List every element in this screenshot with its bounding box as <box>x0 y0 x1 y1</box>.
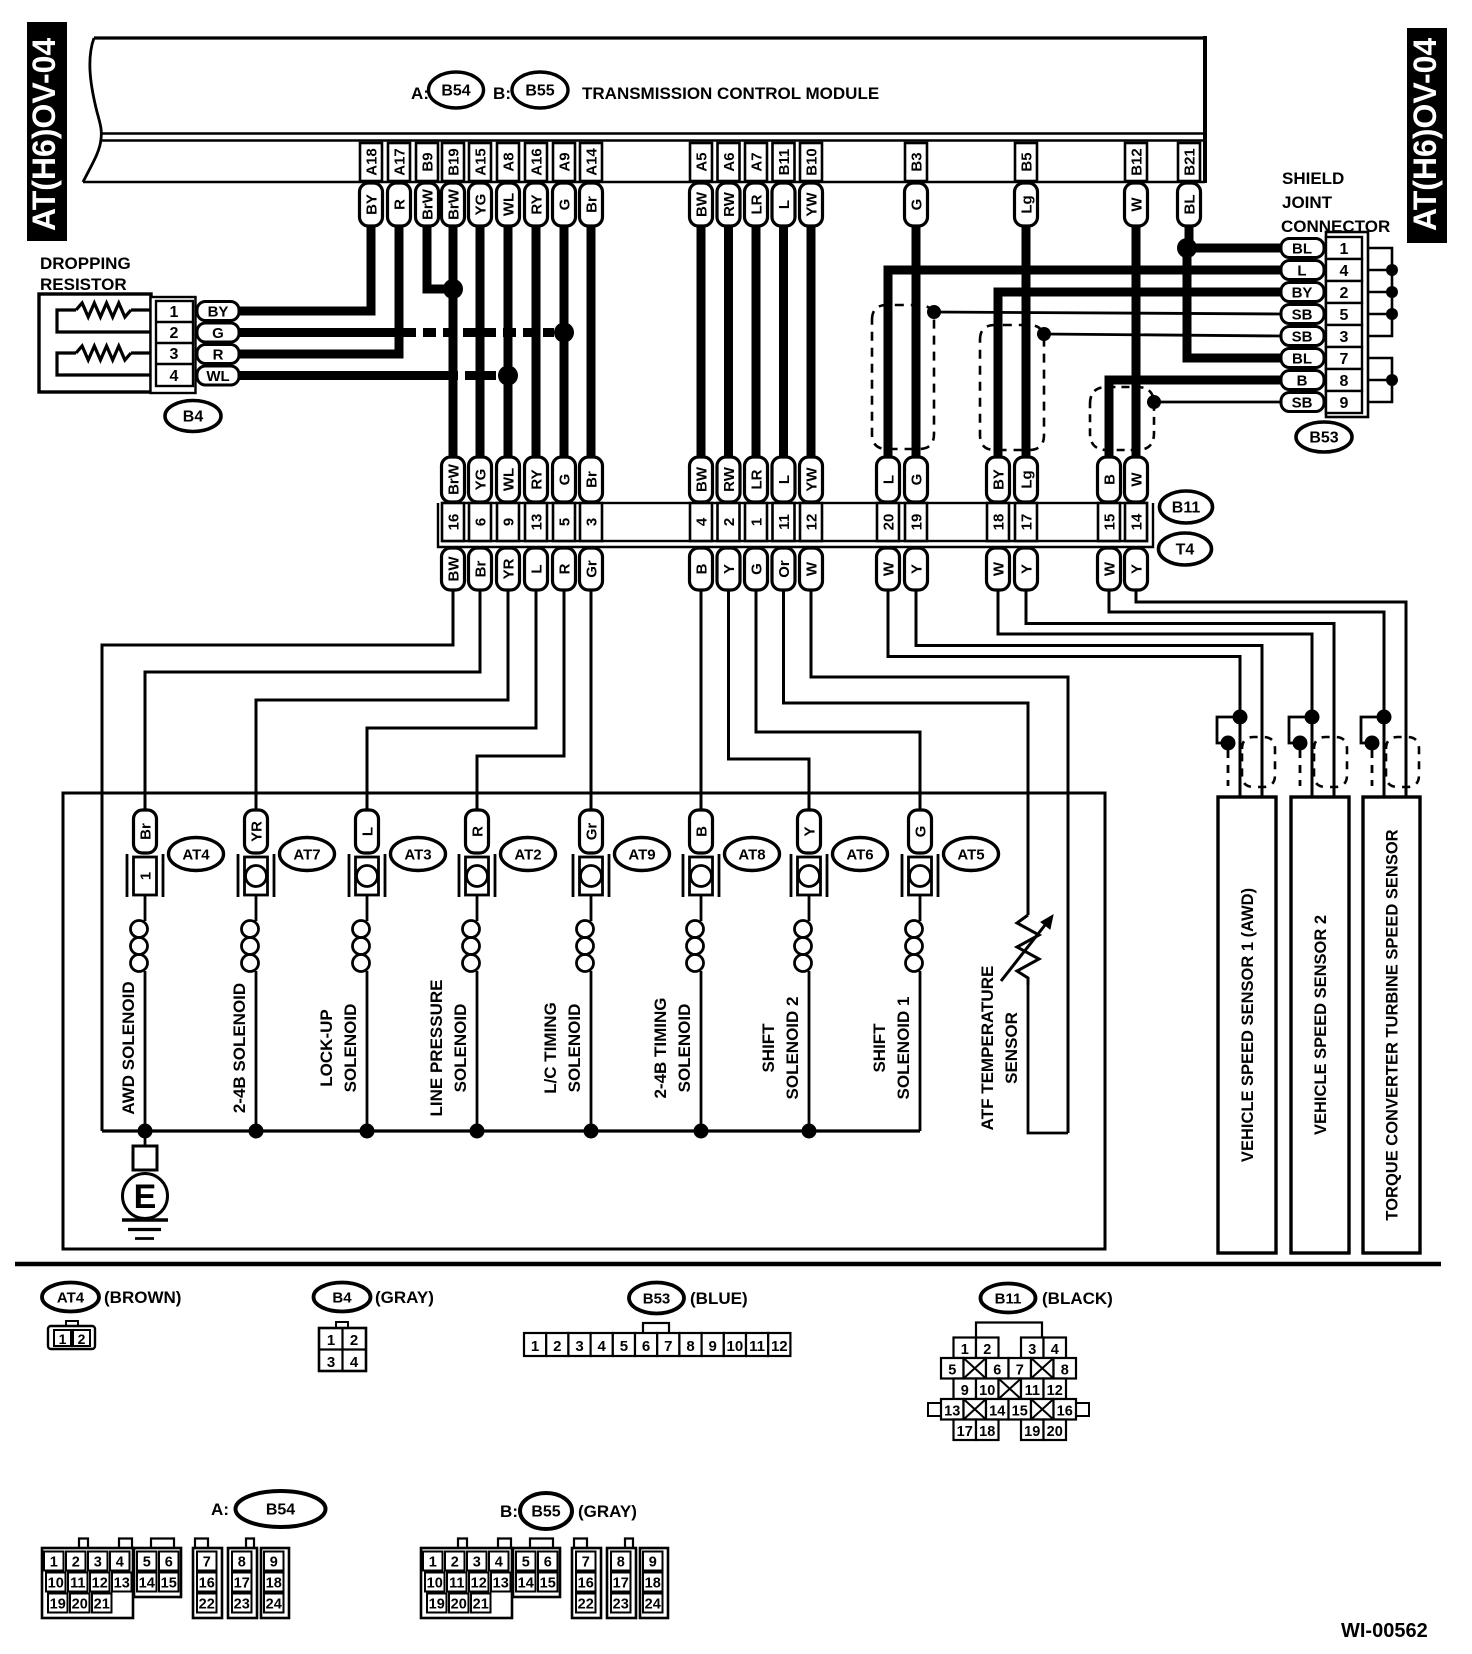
svg-text:L: L <box>776 200 793 209</box>
svg-text:Br: Br <box>584 471 601 488</box>
wire B: T4 pin 4 to 2-4B timing solenoid <box>700 590 703 810</box>
wire color G below T4 pin 1 <box>745 548 768 590</box>
TCM title A: B54 B: B55 TRANSMISSION CONTROL MODULE <box>411 72 879 108</box>
shield joint connector pin 9 (SB) <box>1281 391 1362 413</box>
svg-text:1: 1 <box>531 1338 539 1355</box>
T4/B11 pin 11 <box>773 503 795 541</box>
svg-text:L: L <box>529 564 546 573</box>
wire Gr: T4 pin 3 to L/C timing solenoid <box>590 590 593 810</box>
svg-text:11: 11 <box>776 514 793 530</box>
TCM pin B9 <box>416 143 438 181</box>
wire color YG at TCM pin A15 <box>469 183 492 226</box>
svg-text:1: 1 <box>749 518 766 526</box>
svg-text:2: 2 <box>72 1555 80 1571</box>
wire color Y at solenoid AT6 <box>798 810 821 853</box>
connector view A: B54 <box>211 1491 325 1527</box>
wire Br: TCM A14 to T4 pin 3 <box>587 225 596 458</box>
svg-text:YG: YG <box>473 194 490 216</box>
svg-text:5: 5 <box>620 1338 628 1355</box>
svg-text:B11: B11 <box>776 149 793 176</box>
junction ground rail <box>249 1124 264 1139</box>
junction ground rail <box>360 1124 375 1139</box>
TCM pin B11 <box>773 143 795 181</box>
svg-text:SHIFT: SHIFT <box>759 1023 778 1073</box>
svg-text:BY: BY <box>991 469 1008 490</box>
shield of sensor pair (dashed) <box>1242 737 1275 787</box>
svg-text:21: 21 <box>94 1597 110 1613</box>
T4/B11 pin 17 <box>1015 503 1037 541</box>
svg-text:G: G <box>557 474 574 486</box>
wire drain to shield connector pin 5 <box>934 312 1281 314</box>
svg-text:A:: A: <box>211 1500 229 1519</box>
T4/B11 pin 20 <box>877 503 899 541</box>
TCM pin A9 <box>553 143 575 181</box>
wire color BY above T4 pin 18 <box>987 457 1010 502</box>
wire color W below T4 pin 18 <box>987 548 1010 590</box>
wire G: TCM B3 to T4 pin 19 <box>912 225 921 458</box>
wire color L at solenoid AT3 <box>356 810 379 853</box>
svg-text:AT5: AT5 <box>957 847 984 864</box>
connector label T4 oval <box>1159 533 1212 565</box>
resistor R1 (pins 1-2) <box>57 303 157 332</box>
transmission assembly box <box>63 793 1105 1249</box>
svg-text:B53: B53 <box>1309 430 1338 447</box>
svg-text:B5: B5 <box>1019 152 1036 171</box>
connector B4 pin strip <box>151 297 196 393</box>
svg-text:23: 23 <box>613 1597 629 1613</box>
svg-text:9: 9 <box>709 1338 717 1355</box>
svg-text:LR: LR <box>749 194 766 214</box>
B53 pinout <box>524 1323 790 1356</box>
svg-text:6: 6 <box>473 518 490 526</box>
svg-text:L/C TIMING: L/C TIMING <box>541 1002 560 1094</box>
junction BL wire <box>1177 238 1197 258</box>
shield connector jumper bar pins 1-4-2-5-3 <box>1368 248 1398 336</box>
solenoid coil SHIFT SOLENOID 2 <box>795 895 812 1131</box>
wire color Br below T4 pin 6 <box>469 548 492 590</box>
wire color BY at TCM pin A18 <box>360 183 383 226</box>
svg-text:Y: Y <box>802 826 819 836</box>
DROPPING RESISTOR label <box>40 254 131 294</box>
svg-text:17: 17 <box>957 1424 973 1440</box>
wire Lg: TCM B5 to T4 pin 17 <box>1022 225 1031 458</box>
svg-text:(GRAY): (GRAY) <box>578 1502 637 1521</box>
svg-text:B10: B10 <box>804 148 821 176</box>
connector label AT4 oval <box>169 838 224 871</box>
wire L: TCM B11 to T4 pin 11 <box>779 225 788 458</box>
svg-text:21: 21 <box>473 1597 489 1613</box>
connector label AT9 oval <box>615 838 670 871</box>
svg-text:7: 7 <box>1016 1363 1024 1379</box>
wire Y: T4 pin 19 to vehicle speed sensor 1 <box>916 590 1262 797</box>
junction ground rail <box>470 1124 485 1139</box>
svg-text:SHIFT: SHIFT <box>870 1023 889 1073</box>
wire color G at solenoid AT5 <box>909 810 932 853</box>
solenoid coil L/C TIMING SOLENOID <box>577 895 594 1131</box>
svg-text:Or: Or <box>776 560 793 578</box>
B11 pinout <box>928 1323 1089 1441</box>
ground rail <box>102 1129 920 1132</box>
wire G: T4 pin 1 to shift solenoid 1 <box>756 590 920 810</box>
svg-text:6: 6 <box>993 1363 1001 1379</box>
wire RY: TCM A16 to T4 pin 13 <box>532 225 541 458</box>
svg-text:8: 8 <box>617 1555 625 1571</box>
svg-text:BW: BW <box>446 556 463 582</box>
svg-text:W: W <box>881 561 898 576</box>
svg-text:LR: LR <box>749 469 766 489</box>
wire YR: T4 pin 9 to 2-4B solenoid <box>256 590 508 810</box>
junction shield L/G drain <box>927 305 941 319</box>
wire color W above T4 pin 14 <box>1125 457 1148 502</box>
svg-text:16: 16 <box>446 514 463 531</box>
svg-text:LINE PRESSURE: LINE PRESSURE <box>427 980 446 1117</box>
T4/B11 pin 9 <box>497 503 519 541</box>
label L/C TIMING SOLENOID <box>541 1002 584 1094</box>
solenoid coil 2-4B TIMING SOLENOID <box>687 895 704 1131</box>
svg-text:YW: YW <box>804 192 821 217</box>
wire color W below T4 pin 12 <box>800 548 823 590</box>
wire LR: TCM A7 to T4 pin 1 <box>752 225 761 458</box>
svg-text:3: 3 <box>473 1555 481 1571</box>
svg-text:(BLACK): (BLACK) <box>1042 1289 1113 1308</box>
svg-text:YR: YR <box>501 558 518 579</box>
connector view B: B55 (GRAY) <box>500 1493 637 1529</box>
svg-text:14: 14 <box>989 1404 1005 1420</box>
wire color YR below T4 pin 9 <box>497 548 520 590</box>
svg-text:9: 9 <box>270 1555 278 1571</box>
T4/B11 pin 14 <box>1125 503 1147 541</box>
wire color BW at TCM pin A5 <box>690 183 713 226</box>
svg-text:3: 3 <box>584 518 601 526</box>
sensor box VEHICLE SPEED SENSOR 2 <box>1291 797 1349 1253</box>
svg-text:20: 20 <box>451 1597 467 1613</box>
wire color B below T4 pin 4 <box>690 548 713 590</box>
resistor R2 (pins 3-4) <box>57 346 157 375</box>
junction ground rail <box>802 1124 817 1139</box>
wire color R below T4 pin 5 <box>553 548 576 590</box>
shield joint connector pin 8 (B) <box>1281 369 1362 391</box>
wire Y: T4 pin 2 to shift solenoid 2 <box>729 590 810 810</box>
svg-text:BL: BL <box>1182 195 1199 215</box>
dropping resistor box <box>39 294 151 392</box>
T4/B11 pin 16 <box>442 503 464 541</box>
svg-text:8: 8 <box>1061 1363 1069 1379</box>
svg-text:8: 8 <box>1340 373 1349 390</box>
shield of pair L/G (dashed) <box>872 305 934 449</box>
wire color R at TCM pin A17 <box>388 183 411 226</box>
wire BL: TCM B21 down to junction <box>1185 225 1194 248</box>
shield connector jumper bar pins 7-8-9 <box>1368 358 1398 402</box>
connector AT9 terminal <box>573 854 609 897</box>
svg-text:12: 12 <box>92 1576 108 1592</box>
TCM pin A15 <box>469 143 491 181</box>
svg-text:WL: WL <box>501 468 518 491</box>
svg-text:18: 18 <box>266 1576 282 1592</box>
TCM pin B5 <box>1015 143 1037 181</box>
svg-text:20: 20 <box>1047 1424 1063 1440</box>
wire color R at solenoid AT2 <box>466 810 489 853</box>
svg-text:DROPPING: DROPPING <box>40 254 131 273</box>
svg-text:T4: T4 <box>1176 542 1195 559</box>
wire L: T4 pin 20 up to shield connector pin 4 <box>888 270 1281 458</box>
solenoid coil AWD SOLENOID <box>131 895 148 1131</box>
svg-text:A17: A17 <box>392 148 409 176</box>
wire color Lg above T4 pin 17 <box>1015 457 1038 502</box>
wire color Gr below T4 pin 3 <box>580 548 603 590</box>
wire W: TCM B12 to T4 pin 14 <box>1132 225 1141 458</box>
label SHIFT SOLENOID 1 <box>870 997 913 1100</box>
wire color G above T4 pin 5 <box>553 457 576 502</box>
svg-text:6: 6 <box>165 1555 173 1571</box>
solenoid coil LINE PRESSURE SOLENOID <box>463 895 480 1131</box>
connector AT8 terminal <box>683 854 719 897</box>
svg-text:B12: B12 <box>1129 148 1146 176</box>
T4/B11 pin 5 <box>553 503 575 541</box>
svg-text:7: 7 <box>582 1555 590 1571</box>
svg-text:RY: RY <box>529 194 546 214</box>
svg-text:(BLUE): (BLUE) <box>690 1289 748 1308</box>
wire color Y below T4 pin 17 <box>1015 548 1038 590</box>
svg-text:RY: RY <box>529 469 546 489</box>
svg-text:3: 3 <box>327 1354 335 1371</box>
svg-text:YW: YW <box>804 467 821 492</box>
page label top-right AT(H6)OV-04 <box>1407 28 1447 243</box>
svg-text:B53: B53 <box>643 1291 671 1308</box>
svg-text:2: 2 <box>350 1332 358 1349</box>
wire color BY at B4 <box>197 302 239 321</box>
svg-text:2-4B SOLENOID: 2-4B SOLENOID <box>230 983 249 1113</box>
junction G wire <box>554 323 574 343</box>
svg-text:9: 9 <box>1340 395 1349 412</box>
svg-text:SOLENOID: SOLENOID <box>341 1004 360 1093</box>
svg-text:B9: B9 <box>420 152 437 171</box>
svg-text:BY: BY <box>364 194 381 215</box>
shield drain bracket at VEHICLE SPEED SENSOR 2 <box>1289 710 1320 787</box>
svg-text:2: 2 <box>170 325 179 342</box>
svg-text:B11: B11 <box>995 1291 1022 1308</box>
separator line <box>15 1262 1441 1267</box>
svg-text:B: B <box>694 563 711 574</box>
svg-text:12: 12 <box>1047 1383 1063 1399</box>
svg-text:19: 19 <box>1024 1424 1040 1440</box>
svg-text:1: 1 <box>1340 241 1349 258</box>
shield joint connector pin 4 (L) <box>1281 259 1362 281</box>
svg-text:2: 2 <box>78 1331 86 1347</box>
svg-text:BL: BL <box>1292 241 1312 258</box>
label SHIFT SOLENOID 2 <box>759 997 802 1100</box>
wire BW: T4 pin 16 to ground rail <box>102 590 453 1131</box>
svg-text:4: 4 <box>694 517 711 526</box>
svg-text:WL: WL <box>501 193 518 216</box>
svg-text:RW: RW <box>721 466 738 492</box>
B54 pinout grid <box>42 1539 289 1619</box>
svg-text:13: 13 <box>493 1576 509 1592</box>
svg-text:1: 1 <box>327 1332 335 1349</box>
sensor box VEHICLE SPEED SENSOR 1 (AWD) <box>1218 797 1276 1253</box>
svg-text:19: 19 <box>429 1597 445 1613</box>
wire color G at B4 <box>197 323 239 342</box>
wire color BW below T4 pin 16 <box>442 548 465 590</box>
wire G: dropping resistor pin 2 to junction on A9 wire <box>239 328 403 337</box>
svg-text:BY: BY <box>1292 285 1313 302</box>
svg-text:12: 12 <box>771 1338 788 1355</box>
solenoid coil SHIFT SOLENOID 1 <box>906 895 923 1131</box>
label LINE PRESSURE SOLENOID <box>427 980 470 1117</box>
wire color Or below T4 pin 11 <box>772 548 795 590</box>
svg-text:3: 3 <box>1340 329 1349 346</box>
svg-text:3: 3 <box>1028 1342 1036 1358</box>
solenoid coil LOCK-UP SOLENOID <box>353 895 370 1131</box>
svg-text:3: 3 <box>170 346 179 363</box>
svg-text:3: 3 <box>94 1555 102 1571</box>
svg-text:YR: YR <box>249 821 266 842</box>
connector view B11 (BLACK) <box>981 1284 1113 1313</box>
wire W: T4 pin 15 to torque converter turbine speed sensor <box>1109 590 1384 797</box>
shield drain bracket at TORQUE CONVERTER TURBINE SPEED SENSOR <box>1361 710 1392 787</box>
junction shield B/W drain <box>1147 395 1161 409</box>
svg-text:5: 5 <box>522 1555 530 1571</box>
svg-text:Y: Y <box>909 564 926 574</box>
shield joint connector outer box <box>1326 232 1368 417</box>
wire color YG above T4 pin 6 <box>469 457 492 502</box>
svg-text:23: 23 <box>234 1597 250 1613</box>
svg-text:W: W <box>1129 472 1146 487</box>
connector label AT7 oval <box>280 838 335 871</box>
svg-text:2-4B TIMING: 2-4B TIMING <box>651 997 670 1098</box>
SHIELD JOINT CONNECTOR label <box>1281 169 1390 236</box>
wire color Y below T4 pin 19 <box>905 548 928 590</box>
T4/B11 pin 3 <box>580 503 602 541</box>
svg-text:22: 22 <box>199 1597 215 1613</box>
svg-text:B11: B11 <box>1172 500 1201 517</box>
svg-text:AT9: AT9 <box>628 847 655 864</box>
svg-text:Br: Br <box>473 561 490 578</box>
connector label AT2 oval <box>501 838 556 871</box>
svg-text:R: R <box>557 563 574 574</box>
shield of sensor pair (dashed) <box>1314 737 1347 787</box>
svg-text:6: 6 <box>642 1338 650 1355</box>
svg-text:1: 1 <box>138 872 155 880</box>
svg-text:1: 1 <box>429 1555 437 1571</box>
svg-text:A5: A5 <box>694 152 711 171</box>
wire color L below T4 pin 13 <box>525 548 548 590</box>
svg-text:5: 5 <box>948 1363 956 1379</box>
svg-text:A16: A16 <box>529 148 546 176</box>
wire WL: dropping resistor pin 4 to junction on A8 wire <box>239 371 446 380</box>
svg-text:AT2: AT2 <box>514 847 541 864</box>
svg-text:11: 11 <box>70 1576 85 1592</box>
svg-text:1: 1 <box>59 1331 67 1347</box>
svg-text:W: W <box>804 561 821 576</box>
svg-text:B54: B54 <box>266 1502 295 1519</box>
svg-text:B55: B55 <box>525 83 554 100</box>
svg-text:16: 16 <box>578 1576 594 1592</box>
svg-text:BL: BL <box>1292 351 1312 368</box>
svg-text:RW: RW <box>721 191 738 217</box>
svg-text:L: L <box>360 827 377 836</box>
svg-text:18: 18 <box>979 1424 995 1440</box>
svg-text:24: 24 <box>266 1597 282 1613</box>
connector view B53 (BLUE) <box>629 1283 748 1314</box>
wire color L above T4 pin 20 <box>877 457 900 502</box>
T4/B11 pin 1 <box>745 503 767 541</box>
wire color Y below T4 pin 2 <box>717 548 740 590</box>
shield joint connector pin 2 (BY) <box>1281 281 1362 303</box>
svg-text:SOLENOID 1: SOLENOID 1 <box>894 997 913 1100</box>
wire color G at TCM pin B3 <box>905 183 928 226</box>
svg-text:TORQUE CONVERTER TURBINE SPEED: TORQUE CONVERTER TURBINE SPEED SENSOR <box>1384 829 1402 1220</box>
TCM pin A8 <box>497 143 519 181</box>
wire B: T4 pin 15 up to shield connector pin 8 <box>1109 380 1281 458</box>
svg-text:15: 15 <box>1102 514 1119 531</box>
svg-text:17: 17 <box>613 1576 629 1592</box>
svg-text:TRANSMISSION CONTROL MODULE: TRANSMISSION CONTROL MODULE <box>582 84 879 103</box>
wire color WL above T4 pin 9 <box>497 457 520 502</box>
svg-text:BY: BY <box>208 304 229 321</box>
junction ground rail <box>694 1124 709 1139</box>
svg-text:VEHICLE SPEED SENSOR 2: VEHICLE SPEED SENSOR 2 <box>1312 915 1330 1135</box>
svg-text:10: 10 <box>427 1576 443 1592</box>
svg-text:2: 2 <box>983 1342 991 1358</box>
svg-text:18: 18 <box>645 1576 661 1592</box>
svg-text:4: 4 <box>116 1555 124 1571</box>
svg-text:11: 11 <box>449 1576 464 1592</box>
wire color Gr at solenoid AT9 <box>580 810 603 853</box>
shield of pair B/W (dashed) <box>1090 387 1154 450</box>
T4/B11 pin 12 <box>800 503 822 541</box>
svg-text:14: 14 <box>1129 513 1146 530</box>
svg-text:9: 9 <box>501 518 518 526</box>
junction WL wire <box>498 366 518 386</box>
svg-text:AT4: AT4 <box>182 847 210 864</box>
wire BY: TCM A18 to dropping resistor pin 1 <box>239 225 371 311</box>
svg-text:15: 15 <box>540 1576 556 1592</box>
svg-text:1: 1 <box>50 1555 58 1571</box>
svg-text:14: 14 <box>139 1576 155 1592</box>
wire Y: T4 pin 14 to torque converter turbine speed sensor <box>1136 590 1406 797</box>
svg-text:SOLENOID: SOLENOID <box>675 1004 694 1093</box>
connector label B4 oval <box>165 401 221 432</box>
TCM pin A5 <box>690 143 712 181</box>
svg-text:BrW: BrW <box>420 188 437 220</box>
shield joint connector pin 3 (SB) <box>1281 325 1362 347</box>
svg-text:13: 13 <box>114 1576 130 1592</box>
svg-text:B3: B3 <box>909 152 926 171</box>
TCM pin A14 <box>580 143 602 181</box>
wire L: T4 pin 13 to lock-up solenoid <box>367 590 536 810</box>
svg-text:2: 2 <box>553 1338 561 1355</box>
svg-text:4: 4 <box>495 1555 503 1571</box>
svg-text:13: 13 <box>944 1404 960 1420</box>
svg-text:B: B <box>1102 474 1119 485</box>
svg-text:G: G <box>913 826 930 838</box>
svg-text:LOCK-UP: LOCK-UP <box>317 1009 336 1086</box>
svg-text:24: 24 <box>645 1597 661 1613</box>
svg-text:3: 3 <box>575 1338 583 1355</box>
wire color BrW at TCM pin B9 <box>416 183 439 226</box>
T4/B11 pin 19 <box>905 503 927 541</box>
svg-text:10: 10 <box>727 1338 744 1355</box>
svg-text:R: R <box>213 347 224 364</box>
svg-text:1: 1 <box>170 304 179 321</box>
svg-text:4: 4 <box>170 368 179 385</box>
wire color Br at TCM pin A14 <box>580 183 603 226</box>
svg-text:BW: BW <box>694 191 711 217</box>
connector view B4 (GRAY) <box>314 1283 434 1312</box>
svg-text:17: 17 <box>234 1576 250 1592</box>
svg-text:Br: Br <box>138 823 155 840</box>
page label top-left AT(H6)OV-04 <box>26 22 67 241</box>
